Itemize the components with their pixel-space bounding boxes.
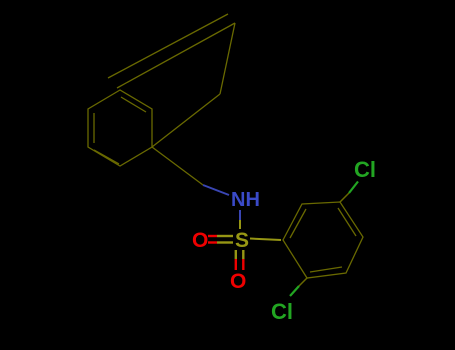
chain bond P-Q: [220, 23, 235, 94]
bond ring F2 to Cl bottom (olive half): [299, 278, 307, 286]
S=O left double bond (red half): [208, 235, 217, 237]
bond ring C2 to Cl top (olive half): [340, 193, 349, 202]
svg-text:Cl: Cl: [271, 299, 293, 324]
bond ring LR to CH: [152, 147, 203, 185]
bond N-S (navy upper half): [239, 210, 241, 220]
bond ring F2 to Cl bottom (green half): [290, 286, 299, 296]
vinyl double bond line 2: [117, 23, 235, 88]
chain bond Q-LR: [152, 94, 220, 147]
aromatic inner line left ring edge UL-LL: [93, 113, 95, 143]
S=O bottom double bond (red half): [235, 259, 237, 270]
S=O bottom double bond (olive half): [235, 250, 237, 259]
aromatic inner line right ring edge A-B2: [290, 209, 306, 238]
svg-text:O: O: [192, 229, 208, 252]
bond S to right ring: [250, 239, 281, 241]
aromatic inner line right ring edge E2-F2: [310, 267, 342, 272]
vinyl double bond line 1: [108, 14, 228, 78]
svg-text:NH: NH: [231, 189, 260, 211]
svg-text:S: S: [235, 229, 249, 252]
bond CH to N (navy): [203, 185, 229, 195]
benzene ring right (2,5-dichlorophenyl): [283, 202, 363, 278]
S=O left double bond (olive half): [217, 235, 233, 237]
aromatic inner line left ring edge UR-T: [121, 97, 146, 112]
bond ring C2 to Cl top (green half): [349, 182, 358, 194]
benzene ring left (phenyl): [88, 90, 152, 166]
aromatic inner line right ring edge C2-D2: [338, 208, 356, 236]
bond N-S (olive lower half): [239, 220, 241, 229]
svg-text:Cl: Cl: [354, 157, 376, 182]
svg-text:O: O: [230, 270, 246, 293]
aromatic inner line left ring edge LL-B: [94, 150, 119, 164]
